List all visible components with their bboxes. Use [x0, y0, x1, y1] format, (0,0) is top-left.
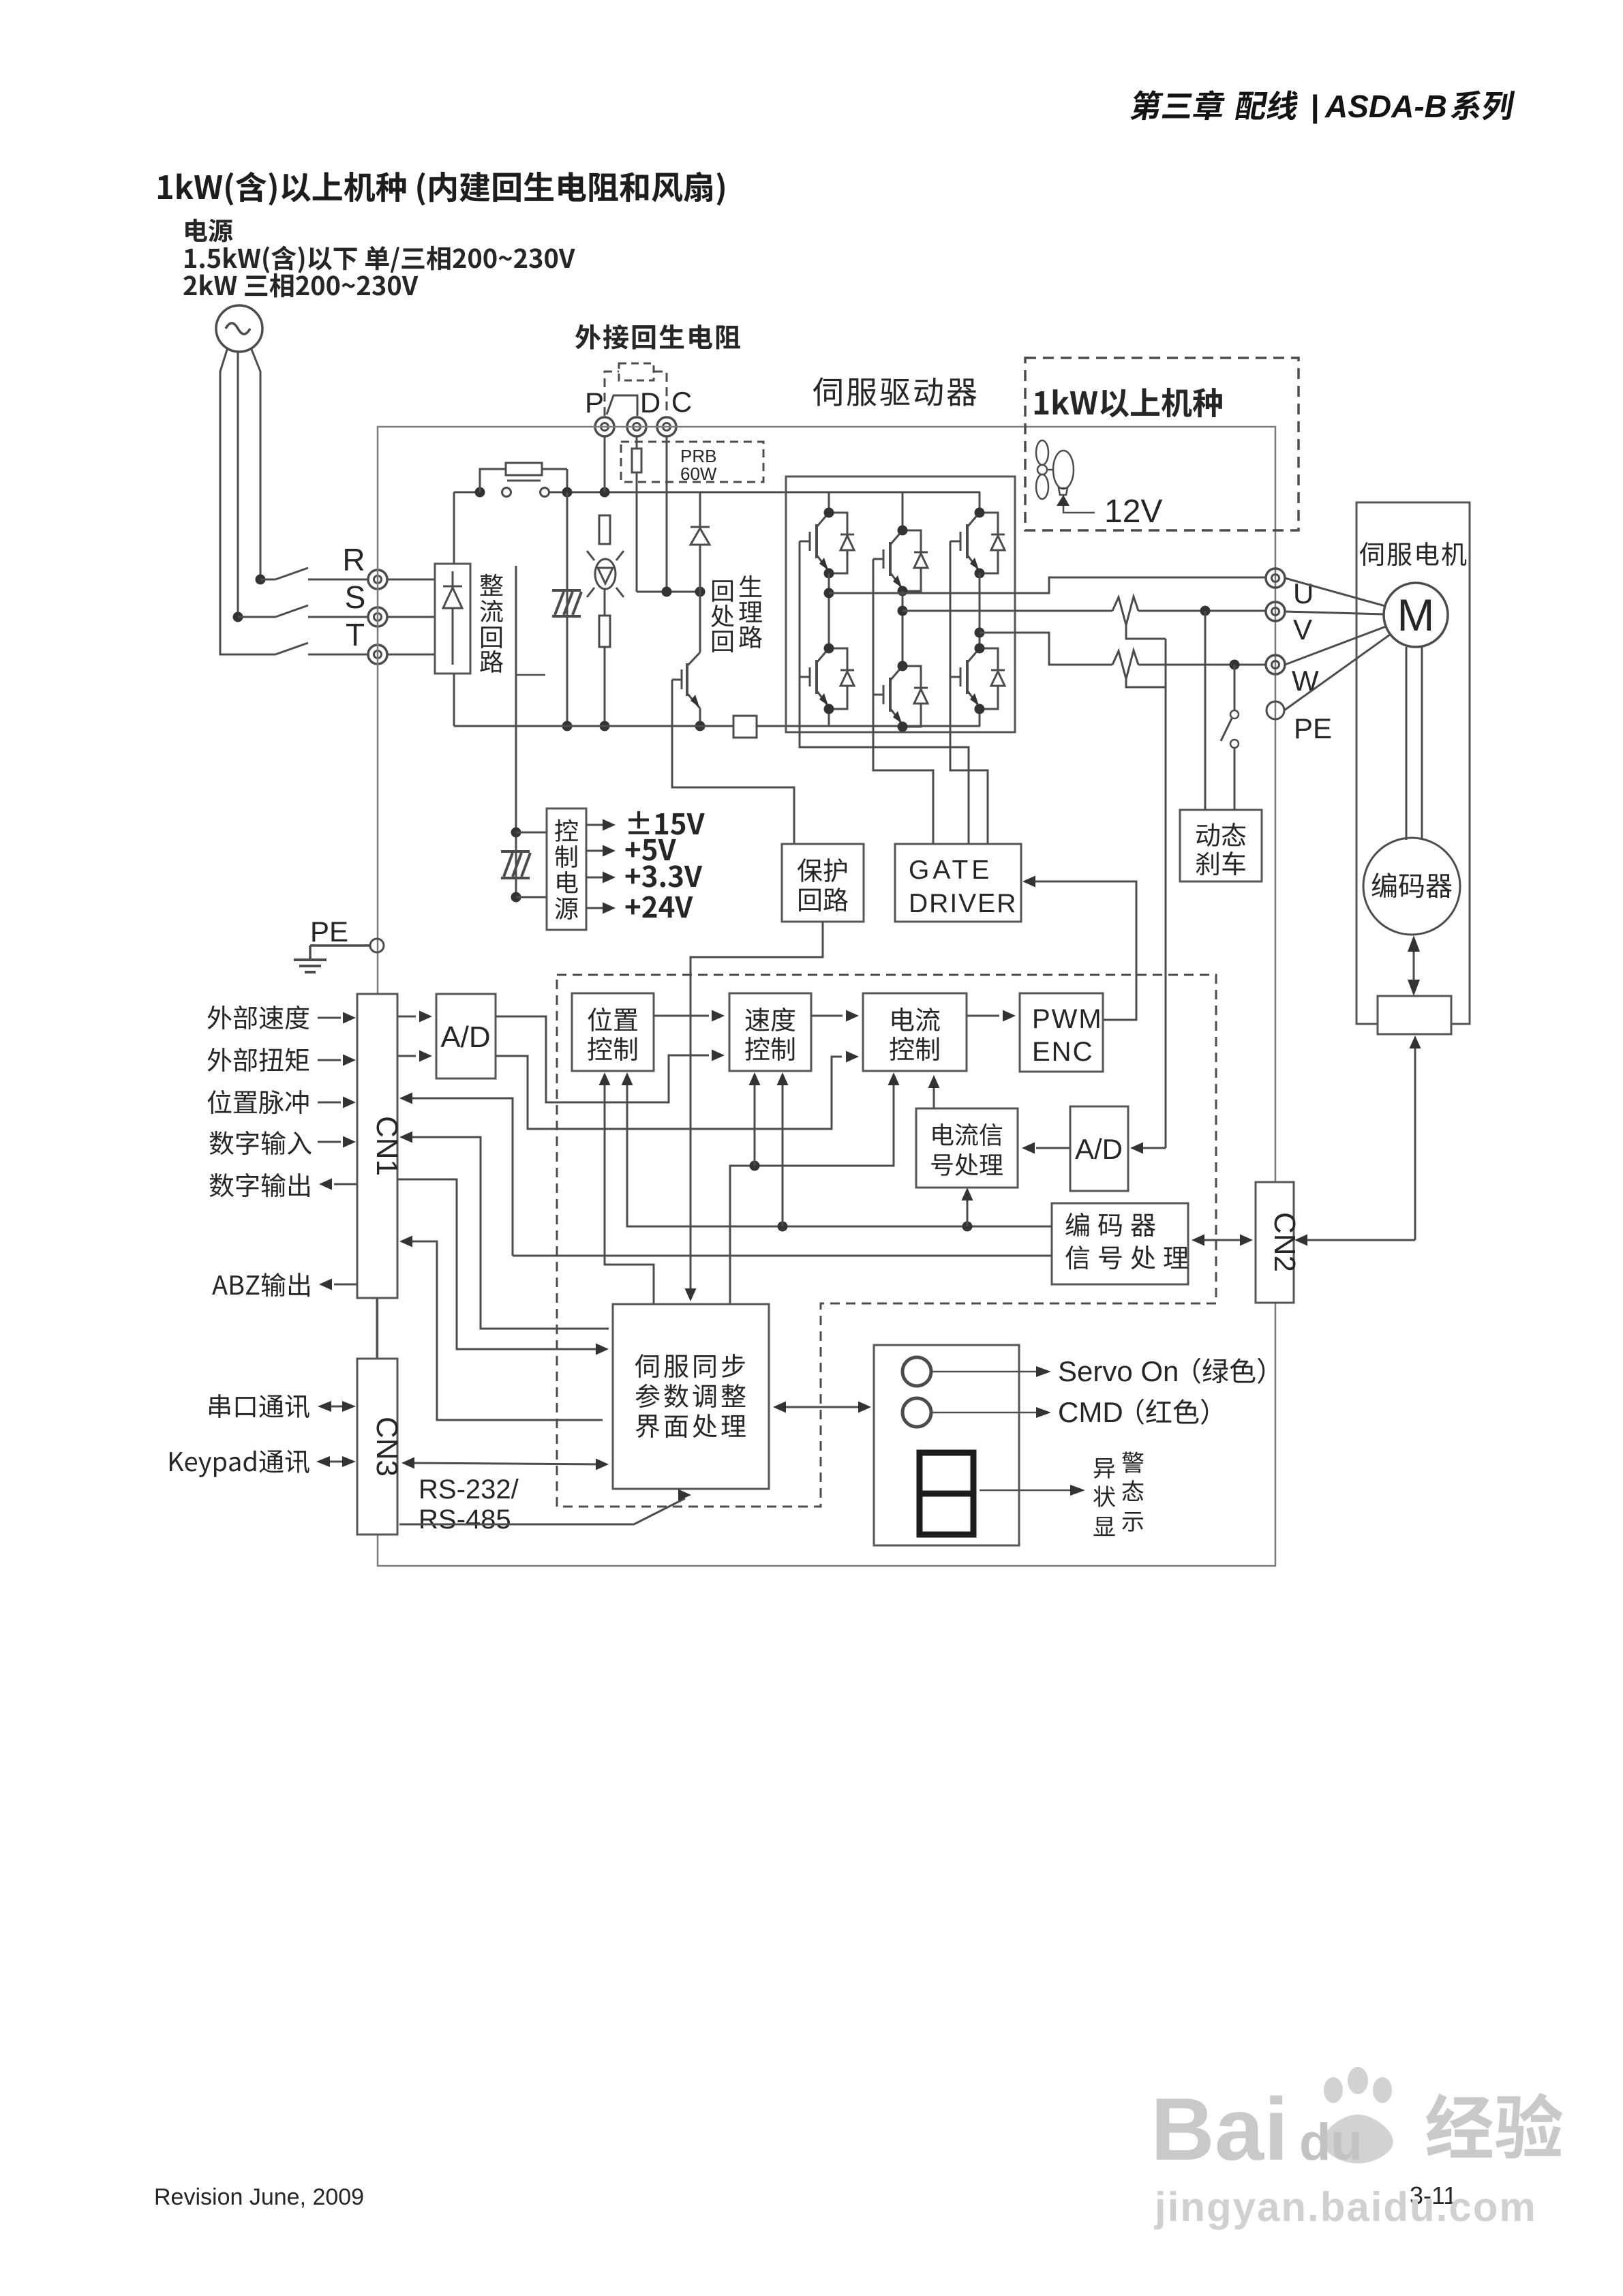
label 异警状态显示 (two columns) — [1093, 1451, 1144, 1536]
external regen resistor dashed box with leads P to C — [605, 363, 667, 416]
Baidu watermark logo — [1151, 2067, 1562, 2179]
A/D converter box input — [436, 994, 496, 1078]
motor shaft to encoder — [1406, 647, 1422, 840]
label 编码器信号处理 — [1065, 1213, 1188, 1269]
wire AC source to T phase — [220, 348, 271, 654]
node W phase tap dot — [975, 628, 985, 638]
control power output +3.3V — [586, 865, 702, 887]
svg-text:jingyan.baidu.com: jingyan.baidu.com — [1154, 2184, 1537, 2230]
label 位置控制 — [588, 1008, 637, 1061]
label 整流回路 (vertical) — [480, 574, 503, 673]
wire PE to ground — [310, 946, 370, 960]
rectifier block 整流回路 — [435, 564, 470, 674]
node leg3 collector dot — [975, 508, 985, 518]
svg-text:CN2: CN2 — [1268, 1212, 1301, 1272]
label ABZ输出 — [212, 1273, 309, 1297]
terminal D — [627, 417, 646, 436]
isolation mark III upper — [552, 590, 581, 616]
svg-text:S: S — [345, 579, 366, 615]
label 数字输入 — [209, 1131, 311, 1155]
label 伺服同步参数调整界面处理 — [635, 1354, 746, 1438]
protection circuit box 保护回路 — [782, 844, 864, 922]
junction dot feedback to speed control — [778, 1222, 788, 1232]
junction dot regen emitter at DC- bus — [695, 721, 706, 731]
terminal P — [595, 417, 614, 436]
shunt box on DC- bus — [733, 716, 757, 738]
IGBT Q6 bottom leg3 — [950, 648, 1005, 726]
label PRB 60W — [680, 446, 717, 484]
junction dot W phase at brake tap — [1230, 660, 1240, 670]
terminal T — [368, 645, 387, 664]
wire W tap to brake switch — [1234, 665, 1236, 710]
gate wire leg2 to gate driver — [873, 559, 933, 844]
junction dot bus at P branch — [600, 487, 610, 498]
label CMD 红色 — [1058, 1396, 1208, 1428]
svg-text:Bai: Bai — [1151, 2079, 1288, 2179]
node leg1 collector dot — [824, 508, 834, 518]
svg-text:W: W — [1292, 665, 1319, 697]
label 控制电源 (vertical) — [555, 819, 578, 920]
IGBT Q3 top leg3 — [950, 492, 1005, 573]
terminal V — [1266, 602, 1285, 621]
node leg2 low emitter dot — [898, 722, 908, 732]
label PWM ENC — [1032, 1004, 1103, 1067]
terminal W — [1266, 655, 1285, 674]
arrow CN1 to A/D lower — [397, 1051, 432, 1062]
cooling fan icon — [1036, 440, 1074, 499]
node leg3 low emitter dot — [975, 704, 985, 714]
node U phase tap dot — [824, 588, 834, 599]
double arrow Keypad通讯 CN3 — [316, 1456, 356, 1467]
label 数字输出 — [209, 1173, 309, 1197]
arrow speed to current control — [811, 1010, 859, 1022]
AC source symbol — [216, 305, 262, 352]
wire V tap to dynamic brake — [1204, 611, 1207, 810]
connector CN1 — [357, 994, 404, 1298]
servo drive outline box — [378, 427, 1275, 1566]
junction dot isolation line at DC- bus — [562, 721, 573, 731]
servo interface box 伺服同步参数调整界面处理 — [613, 1304, 769, 1489]
double arrow CN3 to interface RS-232/RS-485 — [401, 1457, 609, 1470]
terminal R — [368, 570, 387, 589]
svg-text:A/D: A/D — [440, 1021, 490, 1054]
double arrow 串口通讯 CN3 — [318, 1401, 356, 1412]
motor M circle — [1384, 583, 1448, 647]
svg-text:|: | — [1310, 89, 1319, 124]
label 动态刹车 — [1196, 823, 1246, 875]
svg-text:RS-232/: RS-232/ — [419, 1475, 519, 1505]
junction dot control power tap 2 — [511, 892, 521, 903]
current sense wire to A/D — [1130, 639, 1166, 1154]
encoder circle 编码器 — [1363, 838, 1460, 935]
double arrow interface to display panel — [773, 1402, 871, 1413]
speed control box 速度控制 — [729, 993, 811, 1071]
wire display to label — [980, 1485, 1085, 1496]
wire LED1 to label — [931, 1366, 1051, 1377]
connector CN3 — [357, 1359, 404, 1535]
wire PE to motor — [1284, 635, 1390, 710]
label P — [585, 387, 604, 419]
V phase wire with cable break — [902, 596, 1266, 639]
svg-text:60W: 60W — [680, 464, 717, 484]
arrow current signal proc to current control — [928, 1075, 940, 1108]
IGBT Q2 top leg2 — [873, 492, 928, 591]
regen diode — [691, 492, 710, 592]
node leg1 emitter dot — [824, 569, 834, 579]
wire protection circuit to interface block — [685, 922, 823, 1301]
resistor 2 in P discharge chain — [599, 589, 610, 726]
label D — [640, 387, 661, 419]
label PE right — [1294, 712, 1332, 744]
label RS-232/ RS-485 — [419, 1475, 519, 1535]
resistor in P discharge chain — [599, 515, 610, 544]
svg-text:Revision June, 2009: Revision June, 2009 — [154, 2184, 364, 2210]
wire PWM ENC to gate driver — [1022, 876, 1136, 1021]
label 位置脉冲 — [207, 1090, 308, 1114]
label 伺服电机 — [1360, 542, 1467, 566]
junction dot V phase at brake tap — [1200, 606, 1211, 616]
terminal S — [368, 607, 387, 626]
node leg3 emitter dot — [975, 569, 985, 579]
PE terminal left — [370, 939, 384, 952]
IGBT Q5 bottom leg2 — [873, 666, 928, 727]
wire interface to CN1 row2 — [399, 1132, 609, 1329]
svg-text:T: T — [346, 617, 365, 652]
svg-text:PWM: PWM — [1032, 1004, 1103, 1034]
label 串口通讯 — [209, 1394, 309, 1418]
junction dot interface line to speed control — [750, 1161, 760, 1171]
label V — [1293, 614, 1312, 646]
label 保护回路 — [798, 858, 848, 911]
node leg3 low collector dot — [975, 644, 985, 654]
isolation line bus1 to bus2 — [566, 492, 568, 726]
arrow current control to PWM ENC — [967, 1010, 1016, 1022]
wire CN2 to encoder interface — [1294, 1036, 1421, 1246]
IGBT Q4 bottom leg1 — [800, 648, 854, 726]
1kW以上机种 dashed box — [1025, 358, 1299, 530]
label 电流控制 — [890, 1008, 939, 1061]
label 伺服驱动器 servo drive — [813, 378, 977, 406]
diagram title 1kW(含)以上机种 (内建回生电阻和风扇) — [158, 172, 725, 206]
brake switch — [1221, 710, 1239, 810]
dashed control section outline — [557, 975, 1216, 1507]
control power output +-15V — [586, 811, 705, 835]
fan 12V supply arrow and label — [1057, 494, 1162, 530]
svg-text:ASDA-B: ASDA-B — [1324, 89, 1447, 124]
label W — [1292, 665, 1319, 697]
arrow A/D to current signal processing — [1022, 1143, 1070, 1154]
node leg2 low collector dot — [898, 661, 908, 671]
svg-text:D: D — [640, 387, 661, 419]
label 外部速度 — [207, 1006, 309, 1029]
svg-text:A/D: A/D — [1075, 1133, 1123, 1165]
switch on S phase — [238, 605, 369, 617]
terminal C — [657, 417, 676, 436]
switch on T phase — [271, 643, 369, 654]
svg-text:V: V — [1293, 614, 1312, 646]
label 速度控制 — [745, 1008, 795, 1061]
surge suppressor lamp symbol — [587, 551, 624, 597]
relay contact on DC bus — [502, 481, 549, 497]
wire encoder feedback into CN1 row1 — [399, 1093, 513, 1256]
wire rectifier bottom to DC- bus — [453, 674, 455, 726]
label 外部扭矩 — [207, 1048, 309, 1072]
wire AC source to R phase — [251, 348, 260, 577]
encoder feedback line B to CN1 — [513, 1255, 1052, 1257]
wire feedback to speed control — [777, 1072, 789, 1226]
position control box 位置控制 — [572, 993, 654, 1071]
label power source 电源 / 1.5kW(含)以下 单/三相200~230V / 2kW 三相200~230V — [183, 219, 575, 298]
junction dot regen branch — [695, 587, 706, 597]
label S — [345, 579, 366, 615]
svg-text:du: du — [1299, 2113, 1363, 2171]
label Servo On 绿色 — [1058, 1355, 1264, 1387]
soft-charge bypass resistor — [480, 463, 567, 492]
terminal PE motor side — [1266, 701, 1284, 719]
wire rectifier aux to control power — [516, 566, 545, 897]
wire CN1 row3 to interface — [397, 1179, 609, 1355]
PRB 60W dashed box — [621, 442, 763, 482]
wire W to motor — [1285, 626, 1386, 665]
gate wire leg3 to gate driver — [950, 541, 988, 844]
regen transistor Q regen — [672, 592, 700, 726]
node V phase tap dot — [898, 606, 908, 616]
label 外接回生电阻 external regen resistor — [575, 324, 740, 350]
LED CMD — [902, 1398, 931, 1427]
encoder signal processing box 编码器信号处理 — [1052, 1203, 1188, 1284]
wire CN1 to CN3 — [376, 1298, 378, 1359]
label PE left — [310, 916, 348, 948]
svg-text:RS-485: RS-485 — [419, 1505, 511, 1535]
wire interface to speed and current control — [730, 1072, 900, 1304]
wire regen gate to protection circuit — [672, 680, 794, 844]
connector CN2 — [1256, 1182, 1301, 1303]
control power block 控制电源 — [547, 809, 586, 930]
svg-text:C: C — [671, 386, 692, 418]
wire CN1 row4 to interface — [399, 1236, 603, 1421]
watermark jingyan.baidu.com — [1154, 2184, 1537, 2230]
wire C terminal down — [666, 436, 668, 592]
label R — [342, 542, 365, 577]
wire leg3 mid — [979, 573, 981, 648]
label Keypad通讯 — [170, 1450, 309, 1477]
seven segment display — [920, 1453, 973, 1535]
DC- bus wire — [454, 725, 733, 727]
arrow 数字输出 out of CN1 — [319, 1179, 357, 1190]
label U — [1293, 577, 1314, 609]
wire A/D to speed control — [496, 1016, 725, 1102]
wire leg2 mid — [902, 591, 904, 666]
page number 3-11 — [1410, 2181, 1457, 2209]
current control box 电流控制 — [863, 993, 967, 1071]
A/D converter box current — [1070, 1106, 1128, 1191]
IGBT bridge box — [786, 477, 1015, 732]
svg-text:CN1: CN1 — [370, 1116, 404, 1176]
node leg2 collector dot — [898, 526, 908, 536]
resistor PRB — [632, 436, 641, 592]
DC+ bus wire — [454, 492, 786, 494]
encoder interface box on motor — [1378, 996, 1451, 1034]
wire A/D to current control — [496, 1051, 859, 1130]
isolation mark III lower — [501, 851, 530, 878]
svg-text:ENC: ENC — [1032, 1037, 1093, 1067]
wire U to motor — [1285, 578, 1385, 606]
jumper wire P to D — [607, 395, 637, 416]
svg-text:CN3: CN3 — [370, 1417, 404, 1477]
wire LED2 to label — [931, 1407, 1051, 1418]
svg-text:M: M — [1397, 590, 1435, 640]
arrow position to speed control — [654, 1010, 725, 1022]
wire R terminal to rectifier — [387, 579, 435, 581]
label 1kW以上机种 — [1035, 388, 1222, 417]
junction dot bus at bypass right / isolation line — [562, 487, 573, 498]
wire AC source to S phase — [237, 352, 239, 614]
control power output +5V — [586, 839, 676, 861]
junction dot feedback to current signal processing — [962, 1222, 973, 1232]
footer Revision June, 2009 — [154, 2184, 364, 2210]
terminal U — [1266, 569, 1285, 588]
label C — [671, 386, 692, 418]
arrow CN1 to A/D upper — [397, 1011, 432, 1023]
junction dot R wire — [256, 575, 266, 585]
wire rectifier top to DC bus — [453, 492, 455, 564]
wire interface line to speed control input1 — [749, 1072, 761, 1166]
IGBT Q1 top leg1 — [800, 492, 854, 573]
display panel box — [874, 1345, 1019, 1545]
W phase wire with cable break — [980, 633, 1266, 687]
DC- bus wire into bridge — [757, 725, 980, 727]
servo motor box 伺服电机 — [1356, 502, 1470, 1024]
svg-text:Servo On: Servo On — [1058, 1355, 1179, 1387]
svg-text:CMD: CMD — [1058, 1396, 1123, 1428]
wire T terminal to rectifier — [387, 654, 435, 656]
ground symbol — [294, 960, 327, 972]
current signal processing box 电流信号处理 — [916, 1108, 1018, 1188]
label T — [346, 617, 365, 652]
bridge DC+ rail — [786, 492, 980, 494]
encoder double arrow to interface — [1408, 935, 1420, 996]
arrow ABZ输出 out of CN1 — [319, 1279, 357, 1290]
wire taps to control power box — [516, 832, 547, 897]
arrow 数字输入 into CN1 — [318, 1136, 356, 1148]
wire D C to regen branch — [637, 591, 700, 593]
gate wire leg1 to gate driver — [800, 541, 969, 844]
svg-text:R: R — [342, 542, 365, 577]
wire P terminal down to bus — [604, 436, 606, 492]
PWM ENC box — [1020, 993, 1103, 1072]
page header 第三章 配线 | ASDA-B 系列 — [1129, 89, 1515, 124]
wire CN3 to interface keypad path — [399, 1490, 691, 1525]
label 电流信号处理 — [931, 1123, 1003, 1176]
svg-text:PE: PE — [1294, 712, 1332, 744]
svg-text:12V: 12V — [1104, 494, 1162, 530]
double arrow encoder proc to CN2 — [1192, 1235, 1253, 1246]
node leg2 emitter dot — [898, 586, 908, 596]
dynamic brake box 动态刹车 — [1180, 810, 1262, 881]
gate driver box — [895, 844, 1021, 922]
arrow 外部速度 into CN1 — [318, 1012, 356, 1024]
node leg1 low collector dot — [824, 644, 834, 654]
encoder feedback line A — [622, 1072, 1052, 1226]
svg-text:DRIVER: DRIVER — [909, 889, 1017, 918]
switch on R phase — [260, 568, 369, 579]
arrow 位置脉冲 into CN1 — [318, 1097, 356, 1108]
wire V to motor — [1285, 611, 1384, 614]
junction dot P chain at DC- bus — [600, 721, 610, 731]
wire feedback to current signal processing — [962, 1188, 973, 1226]
U phase wire — [829, 577, 1266, 593]
wire interface to position control input1 — [599, 1072, 654, 1304]
node leg1 low emitter dot — [824, 704, 834, 714]
junction dot C at regen header — [662, 587, 672, 597]
LED Servo On — [902, 1357, 931, 1386]
svg-text:P: P — [585, 387, 604, 419]
junction dot S wire — [233, 612, 243, 622]
label 回生处理回路 (two columns) — [711, 575, 762, 652]
junction dot control power tap 1 — [511, 828, 521, 838]
arrow 外部扭矩 into CN1 — [318, 1055, 356, 1066]
svg-text:PE: PE — [310, 916, 348, 948]
junction dot bus at soft-charge branch left — [475, 487, 485, 498]
wire leg1 mid — [828, 573, 830, 648]
svg-text:GATE: GATE — [909, 856, 992, 885]
label GATE DRIVER — [909, 856, 1017, 918]
control power output +24V — [586, 896, 693, 918]
wire S terminal to rectifier — [387, 616, 435, 618]
